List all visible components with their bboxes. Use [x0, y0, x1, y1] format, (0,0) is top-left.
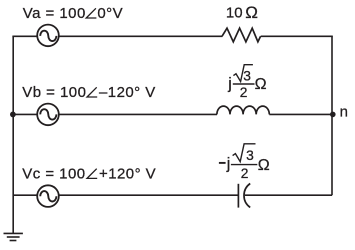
svg-text:j: j	[226, 155, 231, 172]
svg-text:Vb = 100: Vb = 100	[22, 84, 86, 101]
svg-text:Ω: Ω	[245, 3, 258, 22]
junction dot on left bus at Vb row	[10, 112, 16, 118]
voltage source Va	[37, 25, 59, 47]
wire: row3 middle segment	[59, 194, 239, 196]
svg-text:j: j	[227, 75, 232, 92]
svg-text:3: 3	[246, 148, 254, 163]
svg-text:Ω: Ω	[258, 157, 270, 174]
inductor j sqrt3/2 ohm	[217, 106, 269, 114]
svg-text:Vc = 100: Vc = 100	[22, 166, 85, 183]
wire: row3 right segment	[245, 194, 332, 196]
wire: row1 middle segment	[59, 35, 223, 37]
wire: right bus vertical	[331, 36, 333, 195]
label: -j sqrt3/2 ohm (capacitor value)	[219, 144, 270, 181]
svg-text:–120° V: –120° V	[99, 84, 156, 101]
wire: row3 left segment	[13, 194, 37, 196]
wire: row2 middle segment	[59, 113, 217, 115]
wire: left bus vertical	[12, 36, 14, 233]
svg-text:+120° V: +120° V	[99, 166, 156, 183]
svg-text:2: 2	[241, 166, 249, 181]
label: Va = 100&#8736;0&#176;V	[23, 5, 123, 22]
svg-text:Ω: Ω	[255, 76, 267, 93]
svg-text:10: 10	[226, 4, 243, 21]
capacitor -j sqrt3/2 ohm : straight plate	[237, 184, 239, 208]
label: Vb = 100&#8736;-120&#176; V	[22, 84, 155, 101]
svg-text:3: 3	[243, 69, 251, 84]
label: j sqrt3/2 ohm (inductor value)	[227, 65, 266, 100]
wire: row2 left segment	[13, 113, 37, 115]
ground	[4, 233, 23, 240]
resistor 10 ohm	[222, 28, 261, 42]
svg-text:n: n	[340, 104, 348, 121]
svg-text:2: 2	[240, 85, 248, 100]
svg-text:0°V: 0°V	[97, 5, 123, 22]
svg-text:Va = 100: Va = 100	[23, 5, 86, 22]
capacitor curved plate	[244, 184, 250, 208]
wire: row1 left segment	[12, 35, 37, 37]
wire: row2 right segment	[269, 113, 332, 115]
wire: row1 right segment	[261, 35, 333, 37]
voltage source Vc	[37, 185, 59, 207]
label: Vc = 100&#8736;+120&#176; V	[22, 166, 156, 183]
voltage source Vb	[37, 104, 59, 126]
node n dot	[330, 112, 336, 118]
